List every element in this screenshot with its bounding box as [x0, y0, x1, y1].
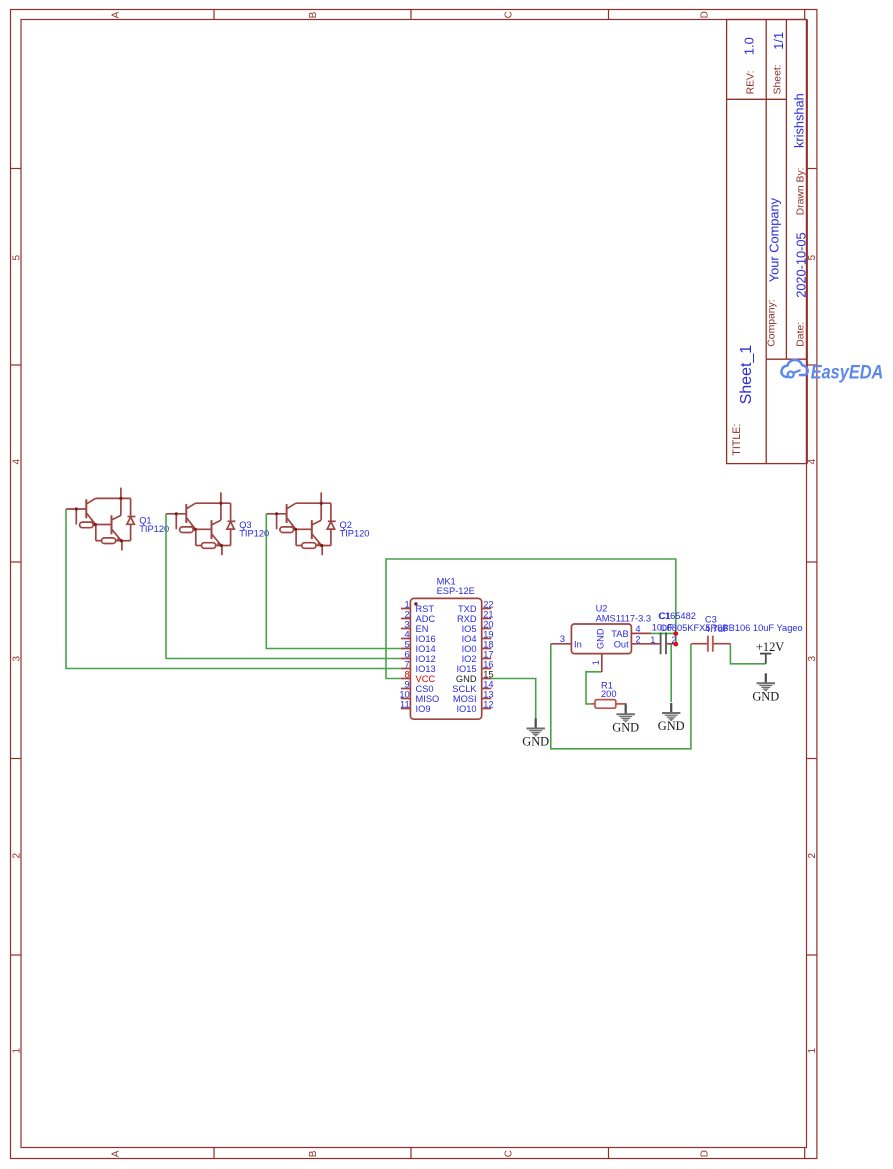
svg-text:3: 3: [11, 656, 22, 662]
svg-text:GND: GND: [522, 735, 549, 749]
junction node 3.3V rail: [673, 631, 678, 636]
svg-text:U2: U2: [596, 604, 608, 614]
capacitor C3: [691, 636, 730, 652]
regulator U2 AMS1117-3.3 body: [571, 624, 631, 654]
svg-text:In: In: [574, 639, 582, 649]
svg-text:5: 5: [405, 639, 410, 649]
svg-text:IO0: IO0: [462, 644, 477, 654]
svg-text:D: D: [700, 11, 711, 18]
IC MK1 ESP-12E body: [410, 598, 481, 719]
MK1 pin 1 RST: [401, 599, 435, 614]
label Q2 TIP120: [340, 520, 370, 539]
svg-text:3: 3: [405, 619, 410, 629]
capacitor C1: [650, 633, 677, 654]
svg-text:ADC: ADC: [416, 614, 436, 624]
EasyEDA logo: [781, 360, 807, 378]
svg-text:2: 2: [405, 609, 410, 619]
svg-text:IO5: IO5: [462, 624, 477, 634]
MK1 pin 11 IO9: [400, 699, 430, 714]
svg-text:4: 4: [807, 459, 818, 465]
MK1 pin 6 IO12: [401, 649, 436, 664]
svg-text:IO15: IO15: [456, 664, 476, 674]
transistor Q2 TIP120: [266, 492, 335, 555]
svg-text:IO4: IO4: [462, 634, 477, 644]
svg-text:2: 2: [635, 635, 640, 645]
svg-text:12: 12: [483, 699, 493, 709]
ground GND at MK1 pin15: [522, 719, 549, 749]
U2 pin 3 In: [551, 634, 582, 649]
svg-text:5: 5: [807, 255, 818, 261]
label C1 10uF C165482 C0805KFX5R8BB106: [652, 611, 803, 633]
svg-text:IO2: IO2: [462, 654, 477, 664]
svg-text:4: 4: [405, 629, 410, 639]
label Q3 TIP120: [239, 520, 269, 539]
svg-text:6: 6: [405, 649, 410, 659]
svg-text:22: 22: [483, 599, 493, 609]
svg-text:IO13: IO13: [416, 664, 436, 674]
svg-text:Your Company: Your Company: [767, 197, 782, 282]
ground GND at C1: [658, 703, 685, 733]
svg-text:MOSI: MOSI: [453, 694, 477, 704]
svg-text:MISO: MISO: [416, 694, 440, 704]
svg-text:A: A: [111, 1150, 122, 1157]
U2 pin 2 Out: [614, 635, 651, 650]
svg-text:CS0: CS0: [416, 684, 434, 694]
wire U2 pin1 to R1: [586, 672, 602, 704]
svg-text:1: 1: [405, 599, 410, 609]
MK1 pin 2 ADC: [401, 609, 436, 624]
svg-text:TITLE:: TITLE:: [731, 424, 743, 456]
MK1 pin 14 SCLK: [452, 679, 493, 694]
svg-text:IO9: IO9: [416, 704, 431, 714]
svg-text:D: D: [700, 1150, 711, 1157]
MK1 pin 19 IO4: [462, 629, 494, 644]
svg-text:IO16: IO16: [416, 634, 436, 644]
svg-text:EasyEDA: EasyEDA: [811, 361, 884, 382]
svg-text:4.7uF: 4.7uF: [705, 624, 729, 634]
wire MK1 VCC to 3.3V rail: [386, 559, 676, 679]
MK1 pin 20 IO5: [462, 619, 494, 634]
wire U2 In to C3: [551, 644, 691, 749]
svg-text:GND: GND: [612, 720, 639, 734]
svg-text:TIP120: TIP120: [239, 529, 269, 539]
svg-text:C: C: [504, 1150, 515, 1157]
svg-text:krishshah: krishshah: [791, 93, 806, 148]
MK1 pin 18 IO0: [462, 639, 494, 654]
svg-text:GND: GND: [658, 719, 685, 733]
label Q1 TIP120: [139, 515, 169, 534]
svg-text:IO12: IO12: [416, 654, 436, 664]
resistor R1 200: [591, 700, 626, 709]
MK1 pin 8 VCC: [401, 669, 436, 684]
svg-text:REV:: REV:: [746, 71, 757, 95]
svg-text:A: A: [111, 11, 122, 18]
svg-text:C0805KFX5R8BB106 10uF Yageo: C0805KFX5R8BB106 10uF Yageo: [660, 623, 803, 633]
svg-text:9: 9: [405, 679, 410, 689]
svg-text:GND: GND: [456, 674, 477, 684]
wire MK1 pin15 GND down: [491, 679, 536, 719]
svg-text:10: 10: [399, 689, 409, 699]
svg-text:B: B: [308, 1150, 319, 1157]
U2 pin 1: [591, 654, 602, 672]
svg-text:RST: RST: [416, 604, 435, 614]
svg-text:14: 14: [483, 679, 493, 689]
svg-text:15: 15: [483, 669, 493, 679]
wire U2 TAB to rail: [651, 632, 676, 634]
label C3 4.7uF: [705, 615, 729, 634]
svg-text:5: 5: [11, 255, 22, 261]
svg-text:200: 200: [601, 689, 617, 699]
svg-text:17: 17: [483, 649, 493, 659]
MK1 pin 3 EN: [401, 619, 429, 634]
svg-text:3: 3: [807, 656, 818, 662]
svg-text:1: 1: [807, 1048, 818, 1054]
svg-text:21: 21: [483, 609, 493, 619]
svg-text:11: 11: [400, 699, 410, 709]
svg-text:SCLK: SCLK: [452, 684, 477, 694]
svg-text:Sheet_1: Sheet_1: [738, 345, 755, 405]
svg-text:VCC: VCC: [416, 674, 436, 684]
svg-text:1/1: 1/1: [771, 32, 786, 50]
wire Q2 base to MK1 pin5 IO14: [266, 514, 401, 649]
MK1 pin 9 CS0: [401, 679, 434, 694]
svg-text:C: C: [504, 11, 515, 18]
MK1 pin 4 IO16: [401, 629, 436, 644]
MK1 pin 16 IO15: [456, 659, 493, 674]
MK1 pin 7 IO13: [401, 659, 436, 674]
wire C1 to GND: [670, 644, 672, 702]
wire C3 to +12V: [730, 644, 765, 664]
MK1 pin 21 RXD: [457, 609, 494, 624]
wire-plate crossings: [660, 633, 662, 635]
svg-text:19: 19: [483, 629, 493, 639]
svg-text:IO10: IO10: [456, 704, 476, 714]
svg-text:1.0: 1.0: [742, 37, 757, 55]
svg-text:2020-10-05: 2020-10-05: [793, 232, 808, 297]
svg-text:1: 1: [11, 1048, 22, 1054]
svg-text:Out: Out: [614, 639, 629, 649]
svg-text:RXD: RXD: [457, 614, 477, 624]
svg-text:GND: GND: [752, 689, 779, 703]
svg-text:20: 20: [483, 619, 493, 629]
MK1 pin 15 GND: [456, 669, 494, 684]
title block: [727, 20, 808, 464]
svg-text:ESP-12E: ESP-12E: [437, 586, 475, 596]
label R1 200: [601, 680, 617, 699]
MK1 pin 12 IO10: [456, 699, 493, 714]
svg-text:IO14: IO14: [416, 644, 436, 654]
svg-text:C165482: C165482: [658, 611, 696, 621]
svg-text:Drawn By:: Drawn By:: [795, 167, 806, 215]
svg-text:1: 1: [591, 660, 601, 665]
svg-text:EN: EN: [416, 624, 429, 634]
svg-text:Date:: Date:: [795, 322, 806, 347]
MK1 pin 5 IO14: [401, 639, 436, 654]
svg-text:16: 16: [483, 659, 493, 669]
power +12V: [756, 640, 784, 664]
svg-text:TAB: TAB: [611, 629, 628, 639]
svg-text:18: 18: [483, 639, 493, 649]
svg-text:TIP120: TIP120: [340, 529, 370, 539]
svg-text:GND: GND: [596, 628, 606, 649]
svg-text:2: 2: [11, 853, 22, 859]
svg-text:Company:: Company:: [766, 299, 777, 346]
ground GND at R1: [612, 704, 639, 734]
svg-text:4: 4: [635, 624, 640, 634]
svg-text:2: 2: [807, 853, 818, 859]
label MK1 ESP-12E: [437, 577, 475, 596]
svg-text:Sheet:: Sheet:: [773, 64, 784, 94]
label U2 AMS1117-3.3: [596, 604, 651, 624]
svg-text:B: B: [308, 11, 319, 18]
svg-text:4: 4: [11, 459, 22, 465]
ground GND at +12V: [752, 673, 779, 703]
MK1 pin 22 TXD: [458, 599, 494, 614]
MK1 pin 17 IO2: [462, 649, 494, 664]
transistor Q3 TIP120: [166, 492, 235, 555]
MK1 pin 10 MISO: [399, 689, 439, 704]
svg-text:+12V: +12V: [756, 640, 784, 654]
U2 pin 4 TAB: [611, 624, 651, 639]
transistor Q1 TIP120: [66, 488, 135, 551]
svg-text:TIP120: TIP120: [139, 524, 169, 534]
svg-text:TXD: TXD: [458, 604, 477, 614]
svg-text:1: 1: [650, 635, 655, 645]
svg-text:3: 3: [560, 634, 565, 644]
svg-text:8: 8: [405, 669, 410, 679]
wire Q3 base to MK1 pin6 IO12: [166, 514, 401, 659]
wire Q1 base to MK1 pin7 IO13: [66, 509, 401, 669]
svg-text:AMS1117-3.3: AMS1117-3.3: [596, 614, 651, 624]
svg-text:13: 13: [483, 689, 493, 699]
svg-text:7: 7: [405, 659, 410, 669]
MK1 pin 13 MOSI: [453, 689, 494, 704]
